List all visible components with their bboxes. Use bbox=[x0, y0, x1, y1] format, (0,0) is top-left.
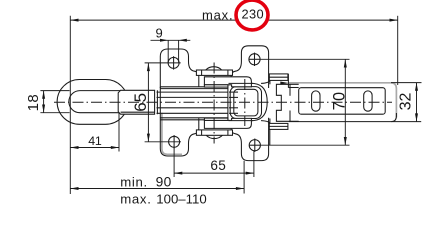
lever top band bbox=[204, 77, 251, 87]
arrow max230 right bbox=[390, 19, 398, 22]
arrow 65h left bbox=[174, 172, 182, 175]
hole top-right bbox=[249, 54, 260, 65]
arrow 9 right-outside bbox=[179, 39, 187, 42]
svg-text:230: 230 bbox=[242, 6, 265, 21]
centerline pivot axis bbox=[213, 63, 215, 144]
hole bottom-right bbox=[249, 140, 260, 151]
dim max.230 line bbox=[70, 19, 239, 21]
dim 41 line bbox=[70, 147, 119, 149]
arrow max230 left bbox=[70, 19, 78, 22]
lever bottom strip bbox=[204, 118, 228, 120]
arrow 18 up bbox=[42, 91, 45, 99]
svg-text:70: 70 bbox=[331, 91, 349, 110]
dim 70 top ext bbox=[260, 58, 349, 60]
rod ends inside nose bbox=[229, 91, 238, 93]
svg-text:65: 65 bbox=[210, 158, 226, 173]
lever nose hood bbox=[228, 83, 267, 120]
plate waist top edges bbox=[160, 86, 236, 88]
dim 41 right ext bbox=[118, 113, 120, 152]
lever nose mid outline bbox=[230, 87, 261, 119]
arrow 70 down bbox=[344, 137, 347, 145]
red highlight ellipse bbox=[236, 0, 268, 30]
svg-text:41: 41 bbox=[88, 134, 102, 148]
svg-text:max.: max. bbox=[120, 191, 151, 206]
gray open-position corner (bottom left of block) bbox=[162, 113, 182, 155]
dome bottom bbox=[206, 135, 223, 138]
svg-text:9: 9 bbox=[156, 26, 163, 41]
arrow min90 left bbox=[70, 187, 78, 190]
loop inner obround bbox=[69, 91, 120, 113]
svg-text:100–110: 100–110 bbox=[156, 191, 206, 206]
svg-text:18: 18 bbox=[25, 94, 42, 112]
adjustment direction arrow on plate bbox=[280, 82, 288, 85]
adjuster block bbox=[118, 90, 154, 114]
plate left edge mid segment bbox=[159, 87, 161, 118]
svg-text:32: 32 bbox=[397, 93, 414, 111]
arrow 65v up bbox=[147, 63, 150, 71]
keeper loop right edge bbox=[289, 84, 291, 96]
catch plate bottom-right corner bbox=[391, 113, 396, 122]
lever top strip bbox=[204, 85, 228, 87]
arrow 32 up bbox=[415, 83, 418, 91]
dim 9 line bbox=[151, 39, 191, 41]
dim min.90 line bbox=[70, 188, 244, 190]
spring bar top bbox=[196, 70, 232, 75]
arrow 18 down bbox=[42, 105, 45, 113]
arrow 65h right bbox=[246, 172, 254, 175]
keeper C-bar bbox=[276, 84, 298, 121]
catch plate bottom edge bbox=[289, 121, 421, 123]
gray catch-plate top edge bbox=[289, 83, 397, 118]
catch plate dark rect bbox=[299, 88, 386, 115]
arrow 9 left-outside bbox=[160, 39, 168, 42]
dim 65h ext lines bbox=[173, 148, 175, 178]
ext line left (loop inner left) bbox=[69, 16, 71, 194]
arrow 32 down bbox=[415, 113, 418, 121]
dim 65v ext lines bbox=[145, 62, 181, 64]
centerline horizontal bbox=[54, 101, 392, 103]
dim 18 ext lines bbox=[40, 90, 69, 92]
slot left bbox=[312, 91, 320, 111]
svg-text:max.: max. bbox=[202, 8, 233, 23]
svg-text:65: 65 bbox=[131, 93, 150, 112]
hole top-left bbox=[168, 57, 179, 68]
keeper hook curve bottom bbox=[261, 121, 270, 124]
centerline nose axis bbox=[244, 79, 246, 126]
hole bottom-left bbox=[169, 136, 180, 147]
dim 32 top ext bbox=[391, 82, 422, 84]
mounting tab bottom-left with cove bbox=[160, 118, 199, 156]
arrow min90 right bbox=[236, 187, 244, 190]
spring bar bottom bbox=[196, 130, 232, 135]
dim 32 line bbox=[416, 83, 418, 122]
lever nose inner bbox=[234, 89, 258, 116]
svg-text:90: 90 bbox=[156, 174, 172, 189]
mounting tab top-left with cove bbox=[160, 49, 199, 88]
slot right bbox=[364, 91, 372, 111]
mounting tab bottom-right with cove bbox=[231, 118, 269, 161]
loop outer obround bbox=[57, 80, 128, 125]
dome top bbox=[205, 67, 222, 70]
arrow 70 up bbox=[344, 59, 347, 67]
plate waist bottom edges bbox=[160, 117, 236, 119]
dim 65h line bbox=[174, 172, 254, 174]
lever bottom band bbox=[204, 118, 251, 128]
arrow 41 left bbox=[70, 146, 78, 149]
keeper bottom flange bbox=[269, 123, 288, 129]
arrow 65v down bbox=[147, 134, 150, 142]
keeper post lower edge bbox=[269, 129, 271, 145]
min.90 right ext bbox=[243, 161, 245, 194]
rod lines bbox=[157, 91, 238, 93]
arrow 41 right bbox=[111, 146, 119, 149]
dim 9 ext lines bbox=[167, 40, 169, 63]
dim 18 line bbox=[43, 91, 45, 113]
keeper hook curve top bbox=[261, 80, 270, 83]
hood edge overlays bbox=[229, 82, 254, 84]
keeper top flange bbox=[269, 74, 288, 81]
dim 70 line bbox=[344, 59, 346, 145]
dim 65v line bbox=[147, 63, 149, 142]
svg-text:min.: min. bbox=[120, 174, 148, 189]
mounting tab top-right with cove bbox=[231, 46, 269, 88]
ext line right (plate right end) bbox=[397, 16, 399, 85]
dim 70 bottom ext bbox=[260, 144, 349, 146]
